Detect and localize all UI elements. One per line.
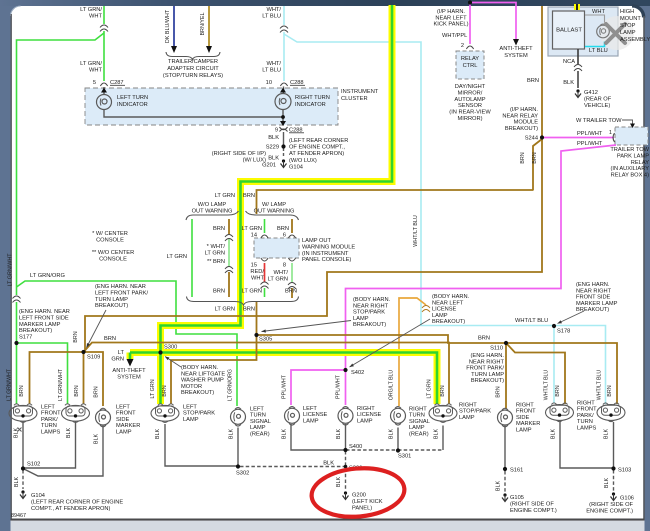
svg-text:LT GRN/: LT GRN/ xyxy=(80,61,102,67)
svg-text:TURN: TURN xyxy=(41,423,57,429)
svg-text:BRN: BRN xyxy=(74,385,80,396)
svg-text:LAMP: LAMP xyxy=(409,425,425,431)
svg-text:S301: S301 xyxy=(398,454,411,460)
svg-text:S177: S177 xyxy=(19,335,32,341)
svg-text:STOP: STOP xyxy=(620,23,636,29)
svg-text:(IN REAR-VIEW: (IN REAR-VIEW xyxy=(449,110,491,116)
svg-text:TURN: TURN xyxy=(409,413,425,419)
svg-text:(RIGHT SIDE OF I/P): (RIGHT SIDE OF I/P) xyxy=(212,151,266,157)
svg-text:S244: S244 xyxy=(525,136,538,142)
svg-text:(REAR): (REAR) xyxy=(250,431,270,437)
svg-text:STOP/PARK: STOP/PARK xyxy=(353,310,385,316)
svg-text:LT GRN: LT GRN xyxy=(242,289,262,295)
svg-text:2: 2 xyxy=(461,43,464,49)
svg-text:S110: S110 xyxy=(490,346,503,352)
svg-text:WASHER PUMP: WASHER PUMP xyxy=(181,378,224,384)
svg-text:LAMP: LAMP xyxy=(432,313,448,319)
svg-text:S229: S229 xyxy=(266,145,279,151)
svg-text:* WHT/: * WHT/ xyxy=(207,244,226,250)
svg-text:LAMP: LAMP xyxy=(353,316,369,322)
svg-text:CLUSTER: CLUSTER xyxy=(341,96,368,102)
svg-text:(STOP/TURN RELAYS): (STOP/TURN RELAYS) xyxy=(163,73,223,79)
svg-text:ORG/LT BLU: ORG/LT BLU xyxy=(389,370,395,401)
svg-text:89467: 89467 xyxy=(11,513,26,519)
svg-text:BLK: BLK xyxy=(604,429,610,440)
svg-text:LEFT: LEFT xyxy=(303,406,317,412)
svg-text:MODULE: MODULE xyxy=(514,120,539,126)
svg-text:OF ENGINE COMPT.,: OF ENGINE COMPT., xyxy=(289,145,345,151)
svg-text:TURN: TURN xyxy=(577,419,593,425)
svg-text:ASSEMBLY: ASSEMBLY xyxy=(620,37,650,43)
svg-text:W/O LAMP: W/O LAMP xyxy=(198,202,227,208)
svg-text:WHT/LT BLU: WHT/LT BLU xyxy=(413,215,419,247)
svg-text:8: 8 xyxy=(283,263,286,269)
svg-text:NEAR LEFT: NEAR LEFT xyxy=(435,15,467,21)
svg-text:LAMP: LAMP xyxy=(183,417,199,423)
svg-text:FRONT: FRONT xyxy=(116,411,136,417)
svg-text:PARK LAMP: PARK LAMP xyxy=(617,153,649,159)
svg-text:(W/O LUX): (W/O LUX) xyxy=(289,158,317,164)
svg-text:RIGHT: RIGHT xyxy=(577,401,595,407)
svg-text:LT GRN: LT GRN xyxy=(427,379,433,398)
svg-text:PANEL): PANEL) xyxy=(352,506,372,512)
svg-text:SIGNAL: SIGNAL xyxy=(250,419,271,425)
svg-text:PPL/WHT: PPL/WHT xyxy=(577,141,603,147)
svg-text:PANEL CONSOLE): PANEL CONSOLE) xyxy=(302,257,351,263)
svg-text:LEFT TURN: LEFT TURN xyxy=(117,95,148,101)
svg-text:LT BLU: LT BLU xyxy=(589,48,608,54)
svg-text:LEFT: LEFT xyxy=(183,405,197,411)
svg-text:FRONT SIDE: FRONT SIDE xyxy=(576,295,611,301)
svg-text:FRONT: FRONT xyxy=(516,409,536,415)
svg-text:AUTOLAMP: AUTOLAMP xyxy=(454,97,485,103)
svg-text:BREAKOUT): BREAKOUT) xyxy=(95,303,128,309)
svg-text:BRN: BRN xyxy=(527,78,539,84)
svg-text:CONSOLE: CONSOLE xyxy=(96,238,124,244)
svg-text:(RIGHT SIDE OF: (RIGHT SIDE OF xyxy=(510,501,554,507)
svg-text:WHT/LT BLU: WHT/LT BLU xyxy=(544,370,550,401)
svg-text:FRONT PARK/: FRONT PARK/ xyxy=(466,366,504,372)
svg-text:NEAR RIGHT: NEAR RIGHT xyxy=(353,303,389,309)
svg-text:BRN: BRN xyxy=(19,385,25,396)
svg-text:S178: S178 xyxy=(557,329,570,335)
svg-text:WARNING MODULE: WARNING MODULE xyxy=(302,244,355,250)
svg-text:S103: S103 xyxy=(618,468,631,474)
svg-text:BALLAST: BALLAST xyxy=(556,28,582,34)
svg-text:G200: G200 xyxy=(352,493,366,499)
svg-text:5: 5 xyxy=(93,80,96,86)
svg-text:(BODY HARN.: (BODY HARN. xyxy=(432,294,470,300)
svg-text:LT GRN: LT GRN xyxy=(242,226,262,232)
svg-text:TURN LAMP: TURN LAMP xyxy=(471,372,504,378)
svg-text:W/ LAMP: W/ LAMP xyxy=(262,202,286,208)
svg-text:TRAILER/CAMPER: TRAILER/CAMPER xyxy=(168,59,218,65)
svg-text:LAMP: LAMP xyxy=(250,425,266,431)
svg-text:(W/ LUX): (W/ LUX) xyxy=(243,158,266,164)
svg-text:LAMP: LAMP xyxy=(303,418,319,424)
svg-text:BREAKOUT): BREAKOUT) xyxy=(353,322,386,328)
svg-text:LT GRN: LT GRN xyxy=(215,307,235,313)
svg-text:(ENG HARN. NEAR: (ENG HARN. NEAR xyxy=(19,309,70,315)
svg-text:LT GRN: LT GRN xyxy=(205,250,225,256)
svg-text:S402: S402 xyxy=(351,370,364,376)
svg-text:G412: G412 xyxy=(584,90,598,96)
svg-text:BLK: BLK xyxy=(563,80,574,86)
svg-text:GRN: GRN xyxy=(111,356,124,362)
svg-text:SYSTEM: SYSTEM xyxy=(504,53,528,59)
svg-text:WHT/: WHT/ xyxy=(266,61,281,67)
svg-text:(REAR): (REAR) xyxy=(409,431,429,437)
svg-text:BLK: BLK xyxy=(229,429,235,440)
svg-text:LT: LT xyxy=(118,350,125,356)
svg-text:RIGHT: RIGHT xyxy=(459,403,477,409)
svg-text:BRN: BRN xyxy=(496,386,502,397)
svg-text:9: 9 xyxy=(275,128,278,134)
svg-text:BLK: BLK xyxy=(336,477,342,488)
svg-text:LAMP: LAMP xyxy=(516,427,532,433)
svg-text:LAMPS: LAMPS xyxy=(577,425,596,431)
svg-text:TURN LAMP: TURN LAMP xyxy=(95,297,128,303)
svg-text:LEFT: LEFT xyxy=(41,405,55,411)
svg-text:PPL/WHT: PPL/WHT xyxy=(336,374,342,399)
svg-text:BREAKOUT): BREAKOUT) xyxy=(505,126,538,132)
svg-text:1: 1 xyxy=(609,130,612,136)
svg-text:WHT: WHT xyxy=(592,9,605,15)
svg-text:BLK: BLK xyxy=(268,156,279,162)
svg-text:RELAY: RELAY xyxy=(461,56,479,62)
svg-text:(IN INSTRUMENT: (IN INSTRUMENT xyxy=(302,251,349,257)
svg-text:S305: S305 xyxy=(259,337,272,343)
svg-text:BRN: BRN xyxy=(162,385,168,396)
svg-text:KICK PANEL): KICK PANEL) xyxy=(434,22,469,28)
svg-text:* W/ CENTER: * W/ CENTER xyxy=(92,231,128,237)
svg-text:(BODY HARN.: (BODY HARN. xyxy=(353,297,391,303)
svg-text:CONSOLE: CONSOLE xyxy=(99,257,127,263)
svg-text:(REAR OF: (REAR OF xyxy=(584,97,612,103)
svg-text:CTRL: CTRL xyxy=(463,63,478,69)
svg-text:(LEFT REAR CORNER OF ENGINE: (LEFT REAR CORNER OF ENGINE xyxy=(31,500,123,506)
svg-text:MARKER LAMP: MARKER LAMP xyxy=(576,301,618,307)
svg-text:RIGHT TURN: RIGHT TURN xyxy=(295,95,330,101)
svg-text:WHT/: WHT/ xyxy=(266,7,281,13)
svg-text:BLK: BLK xyxy=(551,429,557,440)
svg-text:BLK: BLK xyxy=(282,429,288,440)
svg-text:(IN AUXILIARY: (IN AUXILIARY xyxy=(611,166,650,172)
svg-text:BLK: BLK xyxy=(155,429,161,440)
svg-text:RELAY: RELAY xyxy=(631,160,649,166)
svg-text:10: 10 xyxy=(266,80,272,86)
svg-text:AT FENDER APRON): AT FENDER APRON) xyxy=(289,151,344,157)
svg-text:** BRN: ** BRN xyxy=(207,259,225,265)
svg-text:SIDE: SIDE xyxy=(116,417,129,423)
svg-text:S302: S302 xyxy=(236,471,249,477)
svg-text:BRN: BRN xyxy=(243,193,255,199)
svg-text:(I/P HARN.: (I/P HARN. xyxy=(510,107,538,113)
svg-text:BRN: BRN xyxy=(94,386,100,397)
svg-text:BLK: BLK xyxy=(268,135,279,141)
svg-text:TRAILER TOW: TRAILER TOW xyxy=(610,147,649,153)
svg-text:MARKER LAMP: MARKER LAMP xyxy=(19,322,61,328)
svg-text:ENGINE COMPT.): ENGINE COMPT.) xyxy=(586,508,633,514)
svg-text:FRONT: FRONT xyxy=(577,407,597,413)
svg-text:NEAR RIGHT: NEAR RIGHT xyxy=(469,359,505,365)
svg-text:BRN: BRN xyxy=(607,385,613,396)
svg-text:BLK: BLK xyxy=(336,429,342,440)
svg-text:MARKER: MARKER xyxy=(116,423,140,429)
svg-text:NEAR LIFTGATE: NEAR LIFTGATE xyxy=(181,371,225,377)
svg-text:BLK: BLK xyxy=(14,428,20,439)
svg-text:BLK: BLK xyxy=(389,429,395,440)
svg-text:S109: S109 xyxy=(87,355,100,361)
svg-text:PPL/WHT: PPL/WHT xyxy=(282,374,288,399)
svg-text:(ENG HARN.: (ENG HARN. xyxy=(576,282,610,288)
svg-text:NCA: NCA xyxy=(563,59,575,65)
svg-text:BLK: BLK xyxy=(323,461,334,467)
svg-text:S161: S161 xyxy=(510,468,523,474)
svg-text:BREAKOUT): BREAKOUT) xyxy=(471,378,504,384)
svg-text:STOP/PARK: STOP/PARK xyxy=(459,409,491,415)
svg-text:SIDE: SIDE xyxy=(516,415,529,421)
svg-text:LEFT FRONT SIDE: LEFT FRONT SIDE xyxy=(19,315,69,321)
svg-text:LT GRN/WHT: LT GRN/WHT xyxy=(8,253,14,287)
svg-text:COMPT., AT FENDER APRON): COMPT., AT FENDER APRON) xyxy=(31,506,111,512)
svg-text:RIGHT: RIGHT xyxy=(409,407,427,413)
svg-text:FRONT: FRONT xyxy=(41,411,61,417)
svg-text:RELAY BOX 4): RELAY BOX 4) xyxy=(611,173,649,179)
svg-text:** W/O CENTER: ** W/O CENTER xyxy=(92,250,134,256)
svg-text:SYSTEM: SYSTEM xyxy=(117,375,141,381)
svg-text:(RIGHT SIDE OF: (RIGHT SIDE OF xyxy=(589,502,633,508)
svg-text:TURN: TURN xyxy=(250,413,266,419)
svg-text:LAMP: LAMP xyxy=(459,415,475,421)
svg-text:SIGNAL: SIGNAL xyxy=(409,419,430,425)
svg-text:LICENSE: LICENSE xyxy=(303,412,328,418)
svg-text:HIGH: HIGH xyxy=(620,9,634,15)
svg-text:BRN: BRN xyxy=(104,336,116,342)
svg-text:BRN: BRN xyxy=(277,226,289,232)
svg-text:(ENG HARN.: (ENG HARN. xyxy=(471,353,505,359)
svg-text:WHT: WHT xyxy=(89,67,102,73)
svg-text:ANTI-THEFT: ANTI-THEFT xyxy=(499,46,533,52)
svg-text:(I/P HARN.: (I/P HARN. xyxy=(437,9,465,15)
svg-text:WHT/PPL: WHT/PPL xyxy=(442,33,467,39)
svg-text:STOP/PARK: STOP/PARK xyxy=(183,411,215,417)
svg-text:6: 6 xyxy=(283,233,286,239)
svg-text:OUT WARNING: OUT WARNING xyxy=(192,209,233,215)
svg-text:S300: S300 xyxy=(164,345,177,351)
svg-text:SENSOR: SENSOR xyxy=(458,103,482,109)
svg-text:NEAR RIGHT: NEAR RIGHT xyxy=(576,288,612,294)
svg-text:WHT/: WHT/ xyxy=(273,270,288,276)
svg-text:BRN: BRN xyxy=(520,152,526,163)
svg-text:LAMP: LAMP xyxy=(620,30,636,36)
svg-text:LICENSE: LICENSE xyxy=(432,307,457,313)
svg-text:ANTI-THEFT: ANTI-THEFT xyxy=(112,368,146,374)
svg-text:LAMPS: LAMPS xyxy=(41,429,60,435)
svg-text:VEHICLE): VEHICLE) xyxy=(584,103,610,109)
svg-text:BLK: BLK xyxy=(14,477,20,488)
svg-text:INDICATOR: INDICATOR xyxy=(117,102,148,108)
svg-text:BREAKOUT): BREAKOUT) xyxy=(432,319,465,325)
svg-text:RIGHT: RIGHT xyxy=(516,403,534,409)
svg-text:LT GRN: LT GRN xyxy=(215,193,235,199)
svg-text:W TRAILER TOW: W TRAILER TOW xyxy=(576,118,622,124)
svg-text:BRN: BRN xyxy=(285,289,297,295)
svg-text:BRN: BRN xyxy=(243,307,255,313)
svg-text:LT GRN/WHT: LT GRN/WHT xyxy=(58,368,64,401)
svg-text:S400: S400 xyxy=(349,444,362,450)
svg-text:MOUNT: MOUNT xyxy=(620,16,641,22)
svg-text:BREAKOUT): BREAKOUT) xyxy=(576,307,609,313)
svg-text:BRN: BRN xyxy=(532,152,538,163)
svg-text:BREAKOUT): BREAKOUT) xyxy=(181,390,214,396)
svg-text:LEFT: LEFT xyxy=(116,405,130,411)
svg-text:15: 15 xyxy=(251,263,257,269)
svg-text:G105: G105 xyxy=(510,495,524,501)
svg-text:LT GRN/WHT: LT GRN/WHT xyxy=(7,368,13,401)
svg-text:S102: S102 xyxy=(27,462,40,468)
svg-text:LEFT FRONT PARK/: LEFT FRONT PARK/ xyxy=(95,290,149,296)
svg-text:LT GRN: LT GRN xyxy=(268,276,288,282)
svg-text:OUT WARNING: OUT WARNING xyxy=(254,209,295,215)
svg-text:MIRROR): MIRROR) xyxy=(458,116,483,122)
svg-text:LT BLU: LT BLU xyxy=(262,13,281,19)
svg-text:LT GRN/ORG: LT GRN/ORG xyxy=(228,369,234,401)
svg-text:BLK: BLK xyxy=(604,478,610,489)
svg-text:BLK: BLK xyxy=(496,481,502,492)
svg-text:RED/: RED/ xyxy=(250,269,264,275)
svg-text:MIRROR/: MIRROR/ xyxy=(458,90,483,96)
svg-text:NEAR RELAY: NEAR RELAY xyxy=(502,113,538,119)
svg-text:WHT: WHT xyxy=(251,275,264,281)
svg-text:NEAR LEFT: NEAR LEFT xyxy=(432,300,464,306)
svg-text:ENGINE COMPT.): ENGINE COMPT.) xyxy=(510,508,557,514)
svg-text:BRN: BRN xyxy=(555,385,561,396)
svg-text:BLK: BLK xyxy=(434,429,440,440)
svg-text:14: 14 xyxy=(251,233,257,239)
svg-text:DK BLU/WHT: DK BLU/WHT xyxy=(165,9,171,43)
svg-text:G106: G106 xyxy=(620,496,634,502)
svg-text:PPL/WHT: PPL/WHT xyxy=(577,131,603,137)
svg-text:(LEFT REAR CORNER: (LEFT REAR CORNER xyxy=(289,138,348,144)
svg-text:G104: G104 xyxy=(289,164,303,170)
svg-text:WHT: WHT xyxy=(89,13,102,19)
svg-text:(LEFT KICK: (LEFT KICK xyxy=(352,499,383,505)
svg-text:BRN: BRN xyxy=(440,385,446,396)
svg-text:LT GRN: LT GRN xyxy=(150,379,156,398)
svg-text:BLK: BLK xyxy=(66,428,72,439)
svg-text:LT BLU: LT BLU xyxy=(262,67,281,73)
svg-text:(ENG HARN. NEAR: (ENG HARN. NEAR xyxy=(95,284,146,290)
svg-text:LT GRN/ORG: LT GRN/ORG xyxy=(30,273,65,279)
svg-text:LAMP: LAMP xyxy=(116,429,132,435)
svg-text:BLK: BLK xyxy=(94,434,100,445)
svg-text:DAY/NIGHT: DAY/NIGHT xyxy=(455,84,486,90)
svg-text:LEFT: LEFT xyxy=(250,407,264,413)
svg-text:G104: G104 xyxy=(31,493,45,499)
svg-text:BRN: BRN xyxy=(213,289,225,295)
svg-text:MOTOR: MOTOR xyxy=(181,384,202,390)
svg-text:WHT/LT BLU: WHT/LT BLU xyxy=(597,370,603,401)
svg-text:LAMP: LAMP xyxy=(357,418,373,424)
svg-text:BRN/YEL: BRN/YEL xyxy=(200,12,206,35)
svg-text:PARK/: PARK/ xyxy=(41,417,58,423)
svg-text:LICENSE: LICENSE xyxy=(357,412,382,418)
svg-text:MARKER: MARKER xyxy=(516,421,540,427)
svg-text:BRN: BRN xyxy=(213,226,225,232)
svg-text:RIGHT: RIGHT xyxy=(357,406,375,412)
svg-text:BRN: BRN xyxy=(73,331,79,342)
svg-text:INSTRUMENT: INSTRUMENT xyxy=(341,89,379,95)
svg-text:WHT/LT BLU: WHT/LT BLU xyxy=(515,318,548,324)
svg-text:INDICATOR: INDICATOR xyxy=(295,102,326,108)
svg-text:BREAKOUT): BREAKOUT) xyxy=(19,328,52,334)
svg-text:LAMP OUT: LAMP OUT xyxy=(302,238,331,244)
svg-text:PARK/: PARK/ xyxy=(577,413,594,419)
svg-text:LT GRN: LT GRN xyxy=(167,254,187,260)
svg-text:BRN: BRN xyxy=(478,336,490,342)
svg-text:LT GRN/: LT GRN/ xyxy=(80,7,102,13)
svg-text:ADAPTER CIRCUIT: ADAPTER CIRCUIT xyxy=(167,66,219,72)
svg-text:(BODY HARN.: (BODY HARN. xyxy=(181,365,219,371)
